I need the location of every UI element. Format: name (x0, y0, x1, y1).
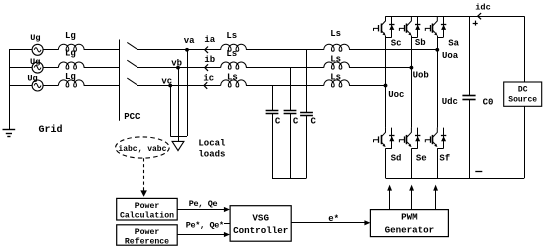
svg-text:Ls: Ls (227, 72, 238, 82)
capacitor C phase-c leg (272, 86, 274, 111)
svg-text:Lg: Lg (65, 72, 76, 82)
wire Sd emitter to rail (385, 148, 387, 178)
svg-text:C: C (293, 117, 299, 127)
svg-text:Udc: Udc (442, 97, 458, 107)
svg-text:Ug: Ug (27, 74, 37, 84)
wire line c Ls1-to-Ls2 (246, 85, 324, 87)
source Ug phase a (32, 44, 43, 55)
svg-text:iabc, vabc: iabc, vabc (118, 145, 166, 154)
svg-text:Sb: Sb (415, 38, 426, 48)
svg-text:vb: vb (171, 59, 182, 69)
wire capacitor common bar (272, 178, 307, 180)
wire source-to-Lg c (43, 85, 58, 87)
svg-text:Sf: Sf (439, 154, 450, 164)
svg-text:Controller: Controller (233, 225, 288, 236)
transistor Sb (407, 16, 412, 26)
svg-text:C: C (310, 117, 316, 127)
wire leg c/d (385, 36, 387, 128)
capacitor C0 (469, 16, 471, 96)
svg-text:Generator: Generator (385, 225, 435, 236)
breaker switch phase c (127, 78, 137, 85)
wire PWM gate signal 2 (411, 190, 413, 210)
node Uob (410, 66, 414, 70)
svg-text:Sa: Sa (448, 38, 459, 48)
local loads funnel arrow (178, 136, 180, 141)
svg-text:ib: ib (204, 55, 215, 65)
wire Se emitter to rail (411, 148, 413, 178)
svg-text:ia: ia (204, 35, 215, 45)
svg-text:Sc: Sc (391, 39, 402, 49)
wire line b Ls1-to-Ls2 (246, 67, 324, 69)
node Uoa (435, 48, 439, 52)
svg-text:Se: Se (416, 154, 427, 164)
svg-text:Ls: Ls (330, 55, 341, 65)
DC Source box (504, 82, 542, 106)
block Power Calculation (117, 198, 178, 220)
node iabc,vabc measurement ellipse (116, 137, 170, 158)
current arrow ia (205, 47, 208, 54)
svg-text:C: C (275, 117, 281, 127)
svg-text:Ls: Ls (330, 73, 341, 83)
wire DC negative rail (386, 178, 525, 180)
wire source-to-Lg b (43, 67, 58, 69)
current arrow idc (478, 13, 481, 19)
capacitor C phase-a leg (306, 50, 308, 113)
svg-text:Ls: Ls (330, 29, 341, 39)
inductor Lg phase b (58, 62, 84, 69)
breaker switch phase b (127, 60, 137, 66)
svg-text:Lg: Lg (65, 31, 76, 41)
transistor Sa (433, 16, 438, 26)
wire PWM gate signal 3 (435, 190, 437, 210)
svg-text:Grid: Grid (38, 124, 62, 136)
svg-text:Calculation: Calculation (120, 211, 174, 221)
source Ug phase b (32, 62, 43, 73)
transistor Sf (433, 128, 438, 138)
current arrow ib (205, 64, 208, 71)
svg-text:C0: C0 (483, 97, 494, 107)
svg-text:vc: vc (161, 77, 172, 87)
wire Pe*,Qe* arrow (177, 234, 225, 236)
svg-text:ic: ic (203, 73, 214, 83)
svg-text:Pe*, Qe*: Pe*, Qe* (186, 220, 224, 230)
label minus (475, 171, 482, 173)
wire Lg-to-PCC a (84, 49, 120, 51)
wire phase c bus-to-source (9, 85, 32, 87)
wire local-load tap b (178, 68, 180, 136)
wire line c PCC-to-Ls (137, 85, 221, 87)
wire line b PCC-to-Ls (137, 67, 221, 69)
svg-text:Power: Power (135, 228, 160, 237)
transistor Sc (381, 16, 386, 26)
inductor Ls2 phase a (324, 44, 350, 51)
wire DC source bottom (524, 106, 526, 178)
svg-text:Ls: Ls (226, 49, 237, 59)
current arrow ic (204, 82, 207, 89)
inductor Lg phase a (58, 44, 84, 51)
svg-text:PCC: PCC (124, 112, 141, 122)
block VSG Controller (230, 206, 291, 242)
wire phase a bus-to-source (9, 49, 32, 51)
node vb (176, 66, 180, 70)
ground (9, 129, 11, 131)
node PCC bus (119, 40, 121, 121)
wire line a Ls2-to-inverter (349, 49, 437, 51)
inductor Ls1 phase a (221, 44, 247, 51)
wire line c Ls2-to-inverter (349, 85, 385, 87)
block Power Reference (117, 225, 178, 245)
source Ug phase c (32, 80, 43, 91)
svg-text:Ls: Ls (226, 31, 237, 41)
wire DC source top (524, 16, 526, 82)
wire local-load bottom bar (170, 136, 187, 138)
svg-text:e*: e* (328, 214, 339, 224)
svg-text:va: va (184, 36, 195, 46)
wire local-load tap c (170, 86, 172, 137)
inductor Ls1 phase c (221, 80, 247, 87)
inductor Ls2 phase b (324, 62, 350, 69)
svg-text:DC: DC (518, 85, 528, 94)
svg-text:idc: idc (475, 3, 490, 13)
wire line a Ls1-to-Ls2 (246, 49, 324, 51)
node Uoc (384, 84, 388, 88)
svg-text:Reference: Reference (125, 237, 169, 247)
wire line a PCC-to-Ls (137, 49, 221, 51)
breaker switch phase a (127, 42, 137, 49)
wire leg a/f (437, 36, 439, 128)
svg-text:Local: Local (198, 139, 226, 149)
svg-text:Lg: Lg (65, 49, 76, 59)
inductor Lg phase c (58, 80, 84, 87)
svg-text:Uob: Uob (413, 70, 429, 80)
wire grid bus vertical (9, 50, 11, 130)
svg-text:VSG: VSG (252, 212, 269, 223)
transistor Sd (381, 128, 386, 138)
wire line b Ls2-to-inverter (349, 67, 411, 69)
svg-text:Sd: Sd (391, 154, 402, 164)
svg-text:Ug: Ug (30, 57, 40, 67)
svg-text:Source: Source (508, 95, 537, 104)
node va (185, 48, 189, 52)
wire leg b/e (411, 36, 413, 128)
inductor Ls1 phase b (221, 62, 247, 69)
capacitor C phase-b leg (290, 68, 292, 111)
svg-text:Uoa: Uoa (442, 51, 459, 61)
wire label tie dash (224, 223, 230, 225)
wire source-to-Lg a (43, 49, 58, 51)
label plus (475, 21, 477, 26)
inductor Ls2 phase c (324, 80, 350, 87)
wire DC positive rail (386, 16, 525, 18)
svg-text:Power: Power (135, 202, 160, 211)
wire Pe,Qe arrow (177, 209, 225, 211)
wire Lg-to-PCC b (84, 67, 120, 69)
wire phase b bus-to-source (9, 67, 32, 69)
wire Sf emitter to rail (437, 148, 439, 178)
svg-text:Uoc: Uoc (388, 90, 404, 100)
svg-text:Pe, Qe: Pe, Qe (189, 199, 218, 209)
wire PWM gate signal 1 (389, 190, 391, 210)
block PWM Generator (370, 210, 448, 237)
wire local-load tap a (187, 50, 189, 136)
node vc (168, 84, 172, 88)
svg-text:Ug: Ug (30, 33, 40, 43)
svg-text:loads: loads (198, 150, 225, 160)
wire e* arrow (291, 222, 365, 224)
svg-text:PWM: PWM (401, 211, 418, 222)
wire Lg-to-PCC c (84, 85, 120, 87)
transistor Se (407, 128, 412, 138)
dashed wire measurement-to-PowerCalculation (143, 158, 145, 190)
